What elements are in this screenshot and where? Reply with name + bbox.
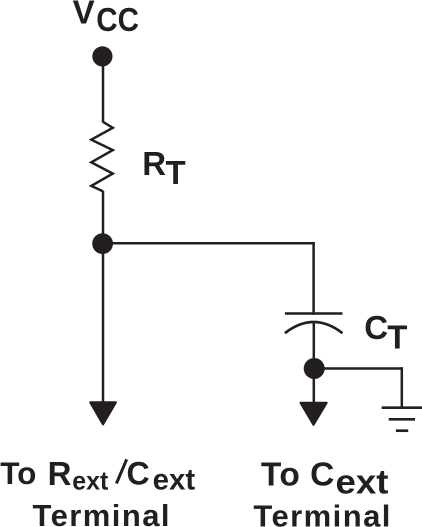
capacitor CT curved bottom plate	[285, 322, 343, 333]
node VCC terminal dot	[92, 46, 112, 66]
svg-text:ext: ext	[336, 464, 389, 502]
svg-text:V: V	[73, 0, 95, 31]
svg-text:To C: To C	[261, 457, 335, 494]
svg-text:T: T	[166, 154, 186, 191]
label To Rext/Cext	[0, 455, 195, 497]
terminal arrow to Cext	[301, 403, 327, 425]
wire resistor bottom to junction A	[102, 191, 105, 244]
wire capacitor branch down to CT top plate	[312, 242, 315, 315]
label To Cext	[261, 457, 389, 502]
label CT	[364, 309, 407, 356]
label RT	[142, 145, 185, 191]
label Terminal (left)	[33, 498, 170, 527]
net label VCC	[73, 0, 139, 38]
svg-text:T: T	[387, 319, 407, 356]
wire junction A down to left arrow	[102, 244, 105, 402]
wire down to ground symbol	[401, 367, 404, 408]
terminal arrow to Rext/Cext	[90, 402, 116, 424]
wire VCC dot to resistor top	[102, 56, 105, 122]
svg-text:C: C	[364, 309, 388, 346]
node junction B (CT bottom)	[304, 358, 325, 379]
wire junction B to ground (horizontal)	[314, 367, 402, 370]
label Terminal (right)	[253, 498, 390, 527]
svg-text:R: R	[48, 455, 72, 492]
svg-text:ext: ext	[72, 466, 108, 496]
ground symbol	[382, 408, 422, 431]
wire CT bottom plate to junction B	[313, 322, 316, 369]
svg-text:Terminal: Terminal	[33, 498, 170, 527]
svg-text:R: R	[142, 145, 166, 182]
wire junction B down to right arrow	[313, 369, 316, 404]
capacitor CT top plate	[285, 312, 343, 315]
svg-text:To: To	[0, 455, 36, 491]
node junction A (RT bottom)	[92, 233, 113, 254]
svg-text:C: C	[127, 456, 150, 492]
resistor RT	[91, 122, 113, 191]
svg-text:ext: ext	[153, 464, 196, 497]
svg-text:Terminal: Terminal	[253, 498, 390, 527]
wire junction A to capacitor branch (horizontal)	[103, 242, 315, 245]
svg-text:CC: CC	[96, 1, 139, 38]
